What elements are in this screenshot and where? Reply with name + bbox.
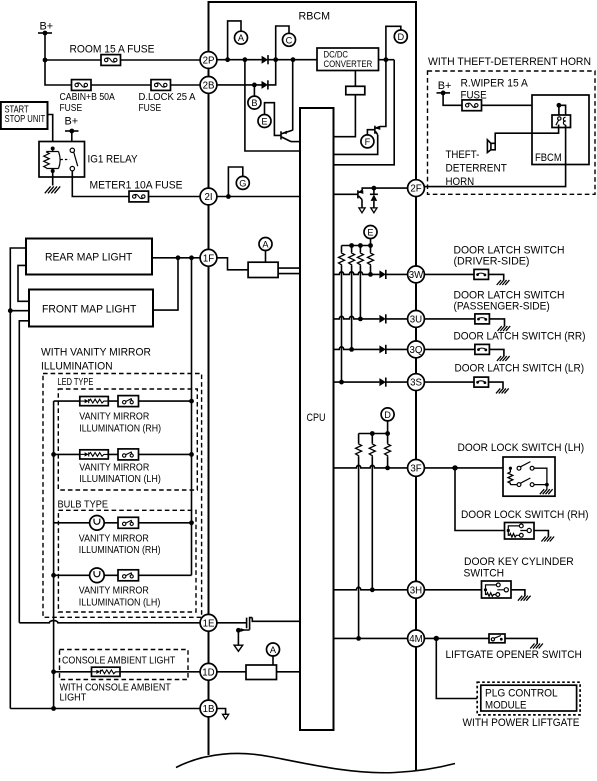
ROOM 15 A FUSE label — [70, 44, 155, 56]
transistor Q2F — [358, 190, 364, 199]
open arrow under Q2F emitter — [359, 208, 365, 213]
FBCM label — [535, 152, 562, 164]
ground in LH lock switch — [540, 489, 553, 494]
svg-text:VANITY MIRROR: VANITY MIRROR — [79, 462, 149, 473]
theft deterrent dashed box — [428, 71, 596, 194]
svg-text:DOOR KEY CYLINDER: DOOR KEY CYLINDER — [464, 556, 574, 568]
connector 3W — [408, 266, 425, 283]
node 1B and vanity rail — [51, 706, 56, 711]
node 3F resistor — [385, 466, 390, 471]
wire DC/DC output node — [379, 59, 395, 61]
wire opener to ground — [505, 638, 537, 644]
fuse METER1 10A — [129, 191, 149, 202]
door key cylinder switch box — [482, 581, 512, 598]
wire vanity bulb row3 — [54, 522, 192, 524]
wire 3H to key cylinder switch — [425, 589, 482, 591]
liftgate opener switch box — [489, 634, 505, 643]
hook E to Q1 base — [265, 103, 282, 136]
svg-text:RBCM: RBCM — [299, 11, 331, 23]
svg-text:D: D — [397, 32, 404, 42]
diode row 3Q — [379, 345, 385, 354]
relay IG1 box — [39, 142, 85, 178]
bulb vanity LH — [90, 568, 105, 583]
connector 3S — [408, 374, 425, 391]
node at x191.5 on 1F wire — [189, 255, 194, 260]
battery B+ theft horn — [437, 80, 452, 96]
svg-text:FUSE: FUSE — [60, 103, 83, 114]
svg-text:F: F — [365, 137, 371, 147]
diode on 2P net — [262, 55, 268, 64]
door lock switch RH box — [505, 523, 535, 540]
resistor block under DC/DC — [346, 86, 365, 94]
wire FRONT map light right to 1F wire — [153, 258, 178, 310]
door latch switch passenger-side — [475, 314, 490, 324]
wire row 3W with hops — [334, 272, 408, 275]
door latch switch driver-side — [474, 269, 489, 279]
svg-text:VANITY MIRROR: VANITY MIRROR — [79, 412, 149, 423]
ground under IG1 relay — [45, 186, 60, 193]
relay in FBCM — [552, 115, 571, 128]
battery B+ top-left — [38, 20, 53, 35]
wire row 3H with hop — [334, 587, 408, 590]
door lock switch LH box — [503, 457, 555, 496]
switch vanity bulb LH — [118, 570, 139, 581]
wire relay coil to ground — [52, 171, 54, 186]
circle A tag at 1F block — [259, 238, 272, 263]
connector 3F — [408, 460, 425, 477]
node 3S resistor — [339, 380, 344, 385]
wire Q2F collector to 2F net — [362, 188, 407, 190]
ground opener switch — [530, 644, 543, 649]
wire REAR left upper stub — [10, 248, 26, 709]
LED TYPE label — [58, 377, 94, 388]
fuse ROOM 15A — [101, 55, 121, 66]
open arrow under mosfet — [234, 645, 243, 651]
ground 3S — [496, 388, 509, 393]
LED resistor vanity RH — [80, 397, 109, 406]
hook and circle B — [248, 85, 261, 109]
svg-text:DOOR LATCH SWITCH (LR): DOOR LATCH SWITCH (LR) — [455, 362, 585, 374]
wire collector-rail x244.9 down to CPU — [245, 60, 300, 151]
fuse R.WIPER 15A — [462, 100, 482, 111]
connector 4M — [408, 630, 425, 647]
svg-text:BULB TYPE: BULB TYPE — [58, 500, 109, 511]
wire 4M to opener switch — [425, 637, 490, 639]
IG1 relay contact — [70, 148, 78, 171]
WITH CONSOLE AMBIENT LIGHT label — [60, 682, 171, 703]
svg-text:THEFT-: THEFT- — [446, 149, 480, 161]
wire row 3S — [334, 381, 408, 383]
svg-text:DOOR LOCK SWITCH (LH): DOOR LOCK SWITCH (LH) — [458, 442, 585, 454]
wires 1F block to CPU — [278, 268, 300, 274]
FRONT MAP LIGHT box — [29, 290, 153, 327]
VANITY MIRROR ILLUMINATION (LH) label bulb — [79, 586, 161, 609]
wire REAR left lower stub to FRONT upper stub — [18, 265, 29, 301]
R.WIPER 15 A FUSE label — [461, 78, 529, 102]
wire D.LOCK fuse to 2B — [171, 84, 201, 86]
wire mosfet drain to CPU — [252, 618, 300, 622]
RBCM label — [299, 11, 331, 23]
wire 1D block to CPU — [277, 671, 301, 673]
svg-text:3Q: 3Q — [410, 345, 423, 356]
battery B+ at IG1 relay — [65, 116, 79, 134]
transistor Q1 — [281, 130, 293, 142]
svg-text:REAR MAP LIGHT: REAR MAP LIGHT — [45, 252, 133, 264]
METER1 10A FUSE label — [90, 180, 183, 192]
node row3 right — [189, 520, 194, 525]
node 4M branch — [434, 636, 439, 641]
resistor leg 1 to 4M — [356, 434, 362, 639]
wire START STOP UNIT to IG1 relay coil — [48, 115, 53, 149]
node row2 right — [189, 452, 194, 457]
svg-text:3F: 3F — [410, 463, 421, 474]
DOOR LATCH SWITCH (PASSENGER-SIDE) label — [454, 289, 565, 312]
svg-text:(PASSENGER-SIDE): (PASSENGER-SIDE) — [454, 300, 550, 312]
wire branch to PLG module — [436, 638, 477, 698]
hook and circle A — [228, 21, 248, 60]
diode to ground arrow on 2F net — [370, 188, 378, 208]
svg-text:4M: 4M — [409, 634, 422, 645]
connector 1B — [200, 700, 217, 717]
D.LOCK 25 A FUSE label — [139, 92, 196, 114]
wire 1B row to left rail — [10, 708, 200, 710]
svg-text:ILLUMINATION (RH): ILLUMINATION (RH) — [79, 545, 161, 556]
node 2F diode tap — [372, 186, 377, 191]
connector 3U — [408, 311, 425, 328]
transistor QF — [375, 126, 381, 135]
nodes on E bus — [349, 243, 373, 248]
ground key cylinder — [518, 596, 531, 601]
bulb type dashed box — [58, 510, 196, 612]
wire B+ down to ROOM fuse node — [44, 33, 46, 60]
svg-text:VANITY MIRROR: VANITY MIRROR — [79, 533, 149, 544]
circle A tag at 1D block — [267, 643, 280, 665]
svg-text:E: E — [367, 228, 373, 238]
svg-text:WITH POWER LIFTGATE: WITH POWER LIFTGATE — [463, 717, 580, 729]
wire relay contact to METER1 fuse — [72, 171, 129, 197]
svg-text:A: A — [262, 240, 269, 250]
node console left — [51, 669, 56, 674]
BULB TYPE label — [58, 500, 109, 511]
DOOR LOCK SWITCH (LH) label — [458, 442, 585, 454]
svg-text:3H: 3H — [410, 585, 422, 596]
wire row 3U with hops — [334, 316, 408, 319]
wire vanity left rail — [53, 401, 55, 708]
svg-text:1D: 1D — [202, 667, 214, 678]
wire 1F to resistor block — [217, 258, 248, 270]
WITH THEFT-DETERRENT HORN label — [428, 56, 591, 68]
svg-text:VANITY MIRROR: VANITY MIRROR — [79, 586, 149, 597]
door lock switch LH internals — [508, 462, 549, 490]
horn speaker symbol — [487, 140, 495, 153]
resistor leg 2 to 3Q — [349, 246, 355, 350]
svg-text:2P: 2P — [203, 56, 215, 67]
hook and circle F — [361, 130, 375, 148]
resistor block A at 1F — [248, 262, 278, 277]
node DC/DC feed — [291, 57, 296, 62]
connector 2F — [408, 180, 425, 197]
switch vanity LH — [118, 449, 139, 460]
svg-text:IG1 RELAY: IG1 RELAY — [88, 154, 139, 166]
node 3H resistor — [370, 587, 375, 592]
wire 3U to latch switch — [425, 318, 475, 320]
wire REAR map light to 1F — [152, 257, 200, 259]
hook and circle G — [228, 167, 249, 197]
wire B+ to R.WIPER fuse — [443, 93, 462, 105]
wire mosfet source down — [237, 630, 239, 645]
IG1 relay coil — [44, 147, 60, 174]
svg-text:FRONT MAP LIGHT: FRONT MAP LIGHT — [42, 304, 137, 316]
diode on 2B net — [262, 80, 268, 89]
svg-text:3S: 3S — [410, 378, 422, 389]
svg-text:2I: 2I — [204, 192, 212, 203]
IG1 RELAY label — [88, 154, 139, 166]
ground 3Q — [497, 356, 510, 361]
resistor leg 1 to 3S — [339, 246, 345, 383]
ground 3W — [497, 280, 510, 285]
svg-text:2B: 2B — [203, 80, 215, 91]
svg-text:WITH VANITY MIRROR: WITH VANITY MIRROR — [41, 347, 151, 359]
resistor leg 4 to 3W — [368, 246, 374, 275]
svg-text:B+: B+ — [65, 116, 79, 128]
wire ROOM fuse to 2P — [121, 59, 201, 61]
connector 1E — [200, 614, 217, 631]
connector 2P — [200, 52, 217, 69]
hook and circle C — [276, 26, 296, 60]
svg-text:CONVERTER: CONVERTER — [324, 59, 373, 69]
DOOR LOCK SWITCH (RH) label — [461, 509, 589, 521]
wire latch to ground 3W — [489, 274, 504, 280]
diode row 3U — [379, 314, 385, 323]
wire vanity bulb row4 — [54, 574, 192, 576]
wire 3F to LH lock switch — [425, 467, 504, 469]
wire CPU to Q2F base — [334, 193, 358, 195]
svg-text:ILLUMINATION (LH): ILLUMINATION (LH) — [79, 474, 161, 485]
svg-text:A: A — [238, 33, 245, 43]
wire 1B hook — [217, 709, 226, 715]
open arrow at 1B — [223, 714, 229, 719]
wire 1E to map lights with hop — [19, 621, 200, 623]
svg-text:ILLUMINATION: ILLUMINATION — [41, 361, 113, 373]
hook and circle D — [386, 26, 407, 59]
svg-text:CONSOLE AMBIENT LIGHT: CONSOLE AMBIENT LIGHT — [62, 655, 175, 666]
VANITY MIRROR ILLUMINATION (RH) label bulb — [79, 533, 161, 556]
svg-text:DOOR LATCH SWITCH (RR): DOOR LATCH SWITCH (RR) — [454, 330, 586, 342]
svg-text:R.WIPER 15 A: R.WIPER 15 A — [461, 78, 529, 90]
node row4 left — [51, 573, 56, 578]
DOOR LATCH SWITCH (LR) label — [455, 362, 585, 374]
svg-text:SWITCH: SWITCH — [464, 567, 505, 579]
wire to ROOM fuse — [45, 59, 101, 61]
REAR MAP LIGHT box — [26, 239, 152, 275]
wire QF collector from DC/DC node — [380, 60, 386, 127]
node Q1 collector tap — [243, 57, 248, 62]
connector 3Q — [408, 341, 425, 358]
vanity outer dashed box — [43, 374, 202, 618]
svg-text:WITH THEFT-DETERRENT HORN: WITH THEFT-DETERRENT HORN — [428, 56, 591, 68]
LED type dashed box — [58, 389, 197, 490]
wire 1D to resistor block — [217, 671, 246, 673]
wire 3S to latch switch — [425, 381, 475, 383]
node relay feed — [557, 103, 562, 108]
bus D resistor bank — [359, 433, 388, 435]
resistor leg 3 to 3U — [357, 246, 363, 319]
svg-text:FBCM: FBCM — [535, 152, 562, 164]
nodes on D bus — [370, 431, 390, 436]
wire E tag stem — [370, 239, 372, 246]
node row2 left — [51, 452, 56, 457]
circle E tag — [258, 115, 271, 128]
node A tap — [225, 57, 230, 62]
wire key cylinder to ground — [511, 590, 525, 596]
DOOR LATCH SWITCH (DRIVER-SIDE) label — [454, 244, 565, 267]
svg-text:1E: 1E — [203, 618, 215, 629]
svg-text:FUSE: FUSE — [139, 103, 162, 114]
wire latch to ground 3Q — [489, 349, 504, 356]
svg-text:LIFTGATE OPENER SWITCH: LIFTGATE OPENER SWITCH — [446, 649, 582, 661]
wire Q1 bottom to CPU — [291, 141, 300, 143]
wire row 3Q with hop — [334, 347, 408, 350]
fuse CABIN+B 50A — [72, 80, 92, 91]
svg-text:ROOM 15 A FUSE: ROOM 15 A FUSE — [70, 44, 155, 56]
node C tap / 2B join — [273, 57, 278, 62]
svg-text:LIGHT: LIGHT — [60, 692, 87, 703]
WITH POWER LIFTGATE label — [463, 717, 580, 729]
switch vanity RH — [118, 396, 139, 407]
wire 1E to mosfet gate — [217, 622, 247, 624]
wire branch down to RH lock switch — [455, 468, 505, 531]
svg-text:1B: 1B — [203, 704, 215, 715]
wire CABIN to D.LOCK fuse — [91, 84, 151, 86]
RBCM box outline — [209, 2, 417, 771]
diode row 3S — [379, 378, 385, 387]
wire node down-left to CPU — [334, 60, 395, 165]
svg-text:DOOR LOCK SWITCH (RH): DOOR LOCK SWITCH (RH) — [461, 509, 589, 521]
open arrow under 2F diode — [371, 208, 377, 213]
VANITY MIRROR ILLUMINATION (LH) label LED — [79, 462, 161, 485]
wire resistor to CPU — [334, 95, 356, 137]
wire 2I to CPU — [217, 196, 300, 198]
CPU label — [307, 412, 326, 424]
CABIN+B 50A FUSE label — [60, 92, 116, 114]
svg-text:E: E — [261, 117, 267, 127]
resistor block A at 1D — [246, 665, 277, 680]
connector 2B — [200, 77, 217, 94]
DOOR KEY CYLINDER SWITCH label — [464, 556, 574, 579]
wire D tag stem — [387, 421, 389, 434]
wire DC/DC bottom to resistor — [354, 71, 356, 87]
CPU box — [300, 108, 334, 730]
LED resistor console ambient light — [92, 667, 121, 676]
wire row 4M — [334, 637, 408, 639]
wire 2B diode up to 2P node — [268, 60, 276, 85]
wire 1D console row — [54, 671, 200, 673]
CONSOLE AMBIENT LIGHT dashed box — [60, 650, 189, 680]
svg-text:LED TYPE: LED TYPE — [58, 377, 94, 388]
bulb vanity RH — [90, 516, 105, 531]
FBCM box — [532, 95, 589, 165]
wire 2B net — [217, 84, 262, 86]
LED resistor vanity LH — [80, 450, 109, 459]
svg-text:2F: 2F — [410, 184, 421, 195]
svg-text:3U: 3U — [410, 314, 422, 325]
mosfet at 1E — [236, 617, 252, 633]
ground 3U — [498, 326, 511, 331]
node DC/DC output — [384, 57, 389, 62]
connector 1F — [200, 249, 217, 266]
svg-text:MODULE: MODULE — [485, 699, 527, 711]
node 4M resistor — [356, 636, 361, 641]
node 3W resistor — [368, 272, 373, 277]
node FRONT map light to left rail — [8, 308, 29, 313]
wire row 3F with hops — [334, 465, 408, 468]
node at x178 on 1F wire — [176, 255, 181, 260]
svg-text:3W: 3W — [409, 270, 424, 281]
node 3F branch — [452, 465, 457, 470]
VANITY MIRROR ILLUMINATION (RH) label LED — [79, 412, 161, 435]
diode row 3W — [379, 270, 385, 279]
IG1 relay dashed link — [61, 159, 70, 161]
switch vanity bulb RH — [118, 517, 139, 528]
node row1 right — [189, 399, 194, 404]
door latch switch RR — [475, 344, 490, 354]
svg-text:D: D — [384, 410, 391, 420]
bus E resistor bank — [342, 245, 371, 247]
PLG control module box — [481, 685, 577, 711]
START STOP UNIT box — [1, 102, 48, 129]
node 3U resistor — [358, 317, 363, 322]
LIFTGATE OPENER SWITCH label — [446, 649, 582, 661]
svg-text:ILLUMINATION (LH): ILLUMINATION (LH) — [79, 597, 161, 608]
wire vanity LED row1 — [54, 400, 192, 402]
svg-text:DETERRENT: DETERRENT — [446, 162, 508, 174]
wire 3Q to latch switch — [425, 348, 475, 350]
connector 3H — [408, 581, 425, 598]
wire B+ to relay contact — [71, 131, 73, 148]
wire latch to ground 3S — [489, 382, 504, 389]
svg-text:C: C — [286, 35, 293, 45]
svg-text:B+: B+ — [438, 80, 452, 92]
DC/DC converter box — [317, 48, 379, 71]
THEFT-DETERRENT HORN label — [446, 149, 508, 188]
door key cylinder switch internals — [484, 583, 509, 596]
wire 2P net inside RBCM — [217, 59, 317, 61]
resistor leg 3 to 3F — [385, 434, 391, 468]
wire B+ node down to CABIN fuse row — [45, 60, 72, 85]
svg-text:1F: 1F — [203, 253, 214, 264]
wire vanity feed rail x191.5 — [191, 258, 193, 576]
fuse D.LOCK 25 A — [151, 80, 171, 91]
svg-text:PLG CONTROL: PLG CONTROL — [485, 687, 558, 699]
svg-text:CPU: CPU — [307, 412, 326, 424]
PLG control module dashed box — [477, 682, 580, 715]
svg-text:A: A — [270, 645, 277, 655]
wire node to relay contact and coil — [559, 105, 566, 117]
svg-text:G: G — [239, 178, 246, 188]
ground RH lock — [541, 537, 554, 542]
door lock switch RH internals — [507, 524, 532, 537]
torn edge curve — [176, 753, 455, 772]
circle E resistor bank tag — [364, 226, 377, 239]
svg-text:B+: B+ — [40, 20, 54, 32]
door latch switch LR — [474, 377, 489, 387]
wire relay coil to 2F — [425, 125, 566, 187]
svg-text:ILLUMINATION (RH): ILLUMINATION (RH) — [79, 423, 161, 434]
connector 1D — [200, 663, 217, 680]
wire latch to ground 3U — [489, 319, 504, 327]
wire Q2F emitter down — [361, 200, 363, 208]
resistor leg 2 to 3H — [369, 434, 375, 590]
